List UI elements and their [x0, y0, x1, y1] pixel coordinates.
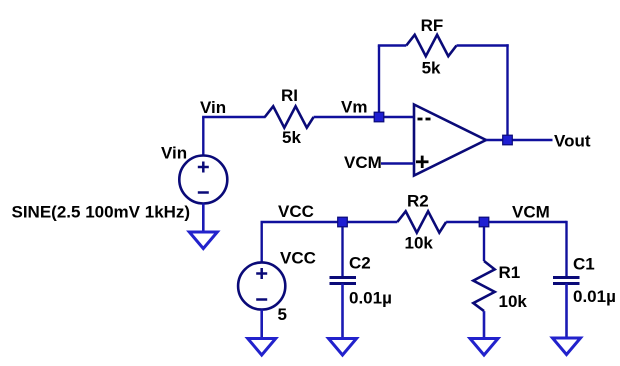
label RF value 5k [422, 59, 441, 78]
label VCC source value 5 [278, 305, 287, 324]
wire feedback top right [457, 44, 509, 46]
wire feedback left vertical [378, 46, 380, 119]
svg-text:0.01µ: 0.01µ [573, 287, 616, 306]
svg-text:10k: 10k [405, 234, 434, 253]
ground under C2 [329, 339, 357, 356]
wire RI right lead to op-amp inverting input [314, 116, 414, 118]
wire C1 top lead vertical [565, 221, 567, 277]
resistor R2 [397, 211, 446, 232]
ground under C1 [553, 338, 581, 355]
wire input node to RI left lead [202, 116, 265, 118]
label RI value 5k [282, 128, 301, 147]
junction at output node [503, 135, 513, 145]
label C1 [573, 255, 595, 274]
junction at VCC/C2 node [338, 217, 348, 227]
svg-text:Vout: Vout [554, 132, 591, 151]
label VCC source name [280, 249, 316, 268]
label RI [281, 86, 298, 105]
wire feedback right vertical [506, 44, 508, 140]
resistor R1 [473, 261, 494, 311]
label Vin source name [161, 144, 187, 163]
node VCC [278, 202, 314, 221]
capacitor C2 [330, 278, 357, 284]
wire R1 to ground [483, 311, 486, 338]
op-amp U1 [414, 105, 486, 176]
node VCM at op-amp plus input [344, 153, 382, 172]
label R1 value 10k [499, 292, 528, 311]
svg-text:R1: R1 [499, 263, 521, 282]
svg-text:5: 5 [278, 305, 287, 324]
label Vin source value SINE [12, 203, 191, 222]
junction at Vm [374, 112, 384, 122]
ground under R1 [470, 339, 498, 356]
label RF [421, 16, 444, 35]
wire VCC rail to R2 [261, 221, 398, 223]
svg-text:VCC: VCC [280, 249, 316, 268]
wire feedback top left [378, 44, 407, 46]
svg-text:Vin: Vin [161, 144, 187, 163]
wire C2 to ground [341, 284, 344, 339]
svg-text:0.01µ: 0.01µ [349, 289, 392, 308]
wire R1 top lead [483, 222, 485, 261]
node Vin [200, 98, 226, 117]
label R2 [407, 192, 429, 211]
svg-text:5k: 5k [422, 59, 441, 78]
svg-text:VCC: VCC [278, 202, 314, 221]
label C2 [349, 254, 371, 273]
wire C2 top lead [341, 222, 343, 277]
label R2 value 10k [405, 234, 434, 253]
junction at VCM node [479, 217, 489, 227]
svg-text:Vin: Vin [200, 98, 226, 117]
svg-text:5k: 5k [282, 128, 301, 147]
svg-text:RF: RF [421, 16, 444, 35]
node Vm [341, 98, 367, 117]
wire C1 to ground [565, 284, 568, 339]
wire op-amp output [486, 139, 553, 141]
wire Vin source to ground [202, 204, 205, 233]
node Vout [554, 132, 591, 151]
svg-text:Vm: Vm [341, 98, 367, 117]
resistor RF [406, 35, 456, 56]
wire VCC rail left vertical [261, 222, 263, 263]
ground under VCC source [248, 339, 276, 356]
svg-text:VCM: VCM [512, 203, 550, 222]
svg-text:SINE(2.5 100mV 1kHz): SINE(2.5 100mV 1kHz) [12, 203, 191, 222]
wire Vin vertical (source to input node) [202, 117, 204, 156]
svg-text:10k: 10k [499, 292, 528, 311]
wire R2 to VCM node [446, 221, 566, 223]
svg-text:R2: R2 [407, 192, 429, 211]
label C1 value 0.01u [573, 287, 616, 306]
svg-text:C1: C1 [573, 255, 595, 274]
resistor RI [265, 106, 314, 127]
label R1 [499, 263, 521, 282]
node VCM [512, 203, 550, 222]
svg-text:VCM: VCM [344, 153, 382, 172]
svg-text:RI: RI [281, 86, 298, 105]
svg-text:C2: C2 [349, 254, 371, 273]
wire VCC source to ground [260, 310, 263, 339]
voltage source VCC [238, 262, 285, 309]
capacitor C1 [553, 278, 580, 284]
ground under Vin source [189, 232, 217, 249]
label C2 value 0.01u [349, 289, 392, 308]
wire VCM to op-amp non-inverting input [381, 162, 414, 164]
voltage source Vin [179, 156, 227, 204]
